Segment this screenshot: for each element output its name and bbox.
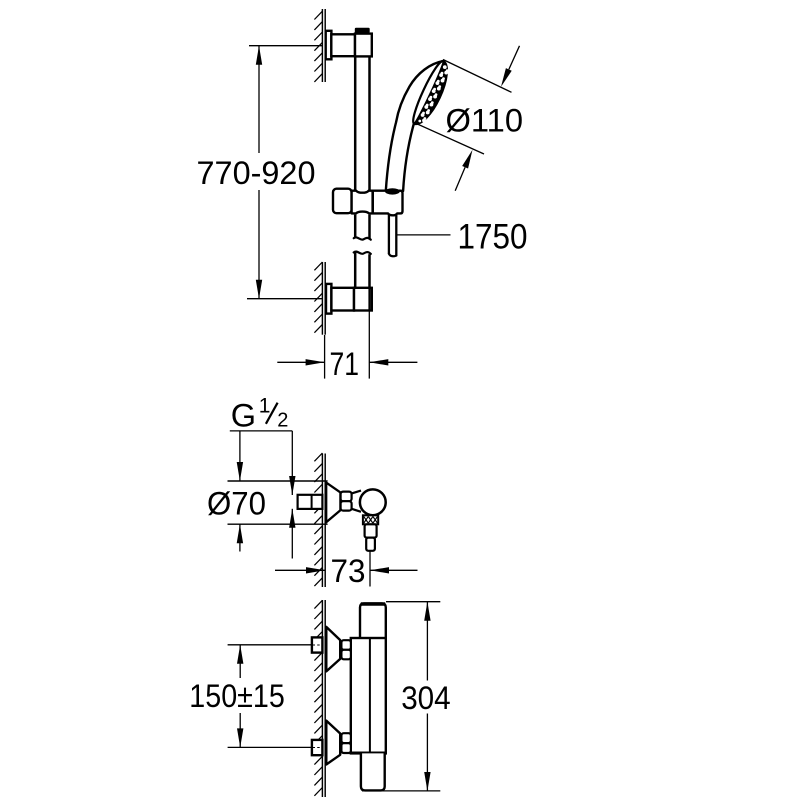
wall bracket bottom: flange (326, 284, 331, 314)
top union stub centerline dashes (313, 644, 323, 646)
dimension line G1/2 lower (291, 509, 293, 559)
hand shower body outline (386, 61, 447, 191)
valve escutcheon cone (326, 483, 340, 523)
thermostat mid body (351, 638, 386, 753)
svg-text:770-920: 770-920 (197, 155, 316, 191)
shower hose right edge (395, 215, 397, 256)
rail end inside clamp (368, 289, 370, 310)
rail top end cap (black) (355, 28, 370, 33)
valve handle square lower (341, 501, 352, 510)
extension line top of 770-920 (249, 45, 322, 47)
supply pipe behind wall (298, 495, 323, 509)
arrow lower of diameter 110 (462, 150, 472, 169)
top union nut lower square (341, 650, 351, 660)
valve handle square upper (341, 492, 352, 502)
line under G 1/2 (230, 430, 292, 432)
extension line 304 bottom (362, 790, 440, 792)
bottom union escutcheon cone (326, 721, 340, 765)
hand shower face spray band (414, 61, 447, 124)
extension line upper (shower face plane) (443, 60, 512, 93)
extension line 150 top (228, 644, 323, 646)
supply pipe hex edge (311, 495, 313, 509)
arrow down 150 (237, 728, 243, 747)
shower hose end cut (389, 254, 396, 256)
valve outlet knurled nut (363, 515, 378, 524)
shower rail upper segment right edge (368, 56, 371, 190)
dimension line 150 upper segment (239, 645, 241, 678)
arrow up G1/2 (289, 509, 295, 528)
valve neck lower line (352, 509, 361, 512)
rail holder knob (333, 189, 352, 214)
arrow up 150 (237, 645, 243, 664)
svg-text:150±15: 150±15 (189, 678, 284, 714)
wall bracket bottom: arm (331, 288, 354, 311)
svg-text:304: 304 (401, 680, 451, 716)
wall bracket top: flange (326, 31, 332, 60)
wall bracket top: arm (331, 34, 355, 56)
extension line lower (shower face plane) (414, 123, 484, 155)
wall hatching (top bracket) (314, 11, 322, 19)
svg-text:1: 1 (259, 394, 271, 417)
svg-text:G: G (231, 398, 256, 434)
top union pipe stub behind wall (312, 637, 323, 652)
bottom union nut upper square (341, 733, 351, 743)
bottom union nut lower square (341, 743, 351, 753)
arrow down 770-920 (256, 280, 262, 299)
arrow upper of diameter 110 (501, 68, 512, 87)
dimension line 770-920 (upper segment) (258, 46, 260, 153)
thermostat bottom cylinder (361, 753, 385, 790)
rail lower segment left edge (354, 253, 357, 289)
svg-text:Ø70: Ø70 (207, 485, 266, 521)
dimension line diameter-70 lower (239, 524, 241, 551)
bottom union pipe stub behind wall (312, 740, 323, 755)
knurl pattern (364, 516, 369, 523)
extension line 71 left (324, 335, 326, 379)
arrow up 770-920 (256, 46, 262, 65)
rail holder clamp divider (371, 191, 374, 214)
dimension line 770-920 (lower segment) (258, 190, 260, 299)
extension line 150 bottom (228, 746, 323, 748)
arrow up diameter-70 (237, 524, 243, 543)
hand shower hose nut (black) (385, 188, 400, 194)
spray face speckles (443, 65, 447, 69)
arrow down diameter-70 (237, 462, 243, 481)
extension line 304 top (386, 601, 440, 603)
rail lower segment right edge (368, 254, 371, 288)
wall hatching (bottom bracket) (314, 262, 322, 270)
thermostat top cylinder (360, 603, 386, 638)
arrow down 304 (424, 772, 430, 791)
dimension line G1/2 upper (to pipe) (291, 431, 293, 495)
bottom union stub centerline dashes (313, 747, 323, 749)
extension line diameter-70 top (228, 480, 328, 482)
svg-text:1750: 1750 (458, 218, 528, 257)
svg-text:71: 71 (330, 346, 360, 382)
svg-text:Ø110: Ø110 (446, 103, 524, 139)
svg-text:73: 73 (331, 553, 366, 589)
thermostat top edge thick (361, 602, 385, 605)
wall bracket top: rail clamp (355, 34, 372, 57)
dimension line 304 lower segment (426, 714, 428, 792)
arrow right of 71 (369, 361, 417, 363)
top union nut upper square (341, 640, 351, 650)
valve outlet tube (366, 538, 375, 551)
extension line 73 right (369, 552, 371, 587)
rail break cut upper (354, 237, 371, 239)
arrow left of 71 (277, 361, 324, 363)
wall line (bottom bracket) (321, 262, 323, 335)
valve outlet connector (365, 524, 377, 537)
shower hose left edge (388, 215, 390, 254)
wall hatching (valve) (314, 453, 322, 461)
leader line 1750 (397, 234, 451, 236)
arrow down G1/2 (289, 476, 295, 495)
wall line (top bracket) (321, 9, 323, 82)
wall line (valve) (321, 454, 323, 588)
thermostat mid body inner line (369, 638, 371, 753)
top union escutcheon cone (326, 627, 340, 672)
valve neck upper line (352, 491, 361, 494)
rail holder body (352, 191, 403, 216)
svg-text:2: 2 (277, 409, 288, 431)
wall hatching (thermostat) (314, 600, 322, 608)
dimension line 304 upper segment (426, 602, 428, 681)
dimension line diameter-70 upper (239, 431, 241, 481)
rail break cut lower (354, 252, 371, 254)
arrow up 304 (424, 602, 430, 621)
wall bracket bottom: rail clamp (354, 288, 372, 311)
thermostat mid body bottom thick (351, 752, 385, 755)
extension line 71 right (368, 312, 370, 379)
wall line (thermostat) (321, 600, 323, 797)
hand shower face inner edge (413, 61, 443, 123)
extension line diameter-70 bottom (228, 523, 328, 525)
valve ball body (360, 489, 386, 515)
shower rail upper segment left edge (354, 56, 357, 190)
extension line bottom of 770-920 (247, 298, 322, 300)
rail middle segment right edge (368, 215, 371, 240)
dimension line 150 lower segment (239, 713, 241, 747)
arrow left of 73 (275, 569, 325, 571)
rail middle segment left edge (354, 215, 357, 238)
arrow right of 73 (370, 569, 418, 571)
